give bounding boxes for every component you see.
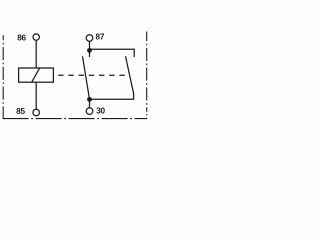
svg-text:86: 86: [17, 34, 26, 43]
svg-text:30: 30: [96, 107, 105, 116]
svg-text:87: 87: [96, 33, 105, 42]
svg-text:85: 85: [16, 107, 25, 116]
